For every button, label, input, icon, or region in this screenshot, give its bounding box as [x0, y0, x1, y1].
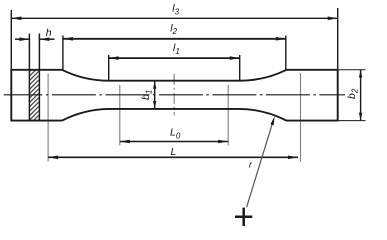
svg-text:L: L	[171, 146, 177, 158]
svg-text:h: h	[46, 27, 52, 39]
